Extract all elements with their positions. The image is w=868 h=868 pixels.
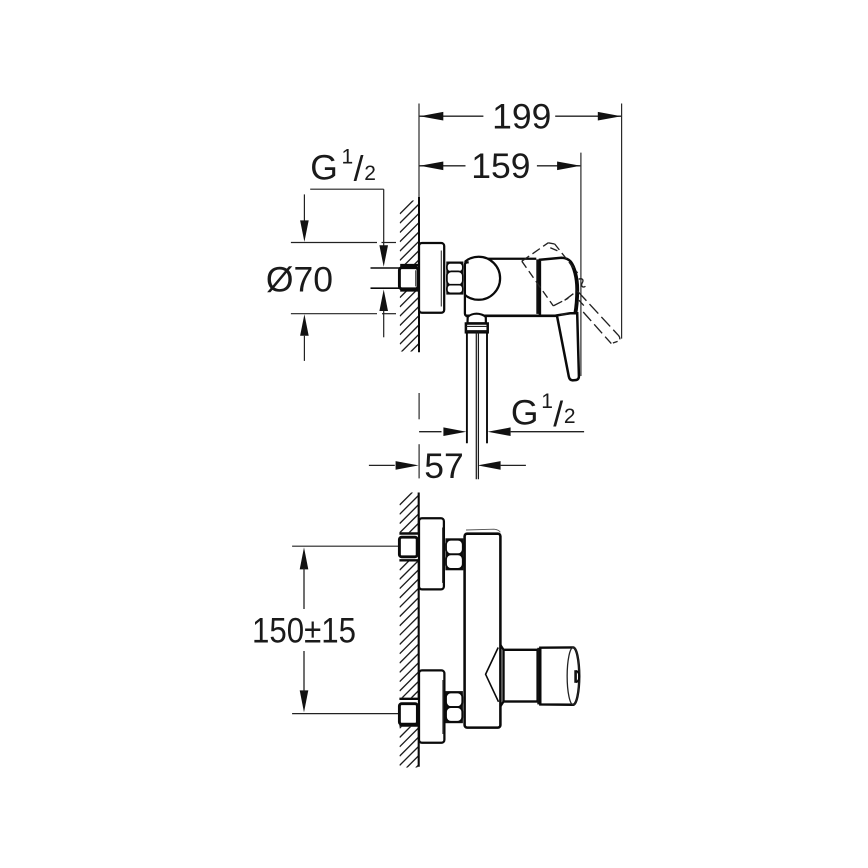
bottom union hex facet lower bbox=[446, 707, 462, 722]
arrowhead 57 left bbox=[396, 461, 419, 470]
knob cylinder with end face bbox=[540, 647, 579, 704]
svg-text:159: 159 bbox=[471, 146, 530, 186]
dim line 150 lower part bbox=[303, 651, 305, 692]
dim line 150 upper part bbox=[303, 568, 305, 609]
body bottom edge bbox=[466, 314, 558, 317]
top escutcheon chamfer line bbox=[442, 528, 444, 583]
label G 1/2 (outlet thread) bbox=[511, 390, 576, 434]
escutcheon flange (top view, Ø70) bbox=[419, 243, 444, 313]
wall hatching (top view) bbox=[400, 195, 419, 372]
arrowhead G1/2 down at inlet pipe top bbox=[379, 245, 388, 266]
knob center lug bbox=[574, 670, 577, 683]
svg-text:1: 1 bbox=[342, 146, 354, 169]
neck bottom chamfer bbox=[500, 702, 503, 707]
arrowhead Ø70 up at flange bottom bbox=[300, 314, 309, 336]
flange chamfer line bbox=[440, 251, 442, 307]
collar bottom emphasis bbox=[466, 330, 488, 332]
arrowhead 159 left bbox=[420, 162, 444, 171]
dim Ø70 lower leader line bbox=[303, 336, 305, 361]
dim 150±15 extension line top bbox=[292, 545, 399, 547]
bottom union escutcheon bbox=[419, 670, 444, 742]
ghost lever lower edge near pivot bbox=[579, 300, 584, 305]
ghost lever base edge 2 bbox=[565, 291, 578, 301]
knob lug bulge bbox=[576, 671, 579, 683]
hex nut facet bottom bbox=[447, 285, 463, 294]
arrowhead 150 down bbox=[300, 690, 309, 712]
arrowhead 57 right bbox=[478, 461, 501, 470]
hex nut facet middle bbox=[447, 271, 463, 285]
extension line: right of dim 199 bbox=[621, 104, 623, 339]
arrowhead 150 up bbox=[300, 547, 309, 569]
outlet pipe outer walls bbox=[466, 332, 468, 443]
inlet pipe in wall, thick lines bbox=[400, 264, 419, 267]
svg-text:G: G bbox=[511, 393, 539, 433]
dim 150±15 extension line bottom bbox=[292, 713, 399, 715]
white gaps for union pipes through wall bbox=[399, 532, 420, 561]
ghost lever upper edge bbox=[578, 291, 618, 335]
arrowhead outlet left bbox=[443, 427, 466, 436]
outlet collar ring bbox=[466, 324, 488, 333]
extension line: wall face / left of dim 199 bbox=[418, 104, 420, 199]
svg-text:199: 199 bbox=[492, 97, 551, 137]
extension line flange top (Ø70) bbox=[291, 242, 377, 244]
svg-text:/: / bbox=[553, 394, 563, 434]
hex nut at ball joint (black base) bbox=[446, 262, 463, 295]
top union hex facet upper bbox=[446, 540, 463, 555]
svg-text:/: / bbox=[354, 149, 364, 189]
svg-text:Ø70: Ø70 bbox=[266, 260, 333, 300]
ghost handle top edge (dashed, raised position) bbox=[522, 243, 548, 261]
mixer body block (top view) bbox=[472, 259, 536, 316]
leader drop line to inlet pipe bbox=[383, 189, 385, 248]
top union hex nut (black base) bbox=[445, 538, 463, 570]
dark seam ring between body and cartridge cap bbox=[536, 259, 540, 314]
extension line flange bottom (Ø70) bbox=[291, 313, 377, 315]
svg-text:2: 2 bbox=[364, 162, 376, 185]
dimension line outlet G1/2 bbox=[419, 431, 441, 433]
inlet pipe stub (G1/2) lines bbox=[371, 267, 400, 269]
leader underline of G 1/2 top label bbox=[310, 188, 384, 190]
mixer body (front) bbox=[465, 534, 501, 728]
svg-text:2: 2 bbox=[564, 405, 576, 428]
lever edge curve on cap bbox=[569, 262, 576, 314]
lever handle (rest position) bbox=[557, 313, 579, 380]
label G 1/2 (top left, inlet thread) bbox=[310, 146, 376, 189]
svg-text:1: 1 bbox=[541, 390, 553, 413]
top union square nut bbox=[399, 537, 417, 557]
bottom escutcheon chamfer line bbox=[442, 680, 444, 734]
inner edge of square nut bbox=[415, 270, 417, 286]
inlet union square nut bbox=[399, 268, 418, 289]
wall face line (top view) bbox=[418, 197, 420, 352]
svg-text:150±15: 150±15 bbox=[252, 611, 356, 651]
body chevron marking bbox=[486, 648, 499, 702]
dim Ø70 upper leader line bbox=[303, 194, 305, 221]
outlet thread stub (G1/2) inner lines bbox=[475, 332, 477, 479]
ghost lever tip bbox=[611, 335, 620, 344]
ghost lever base edge bbox=[553, 298, 568, 306]
arrowhead 199 left bbox=[420, 112, 444, 121]
white gap for inlet pipe through wall bbox=[399, 264, 419, 291]
wall face line (bottom view) bbox=[418, 493, 420, 767]
ghost handle corner bbox=[548, 243, 555, 244]
neck top chamfer bbox=[500, 645, 503, 650]
body column holding ball bbox=[465, 262, 489, 315]
ghost lever lower edge bbox=[583, 312, 611, 344]
ghost cap left edge bbox=[522, 261, 554, 306]
ghost dash at lever base bbox=[561, 313, 567, 316]
dimension line 57 bbox=[369, 464, 395, 466]
arrowhead G1/2 up at inlet pipe bottom bbox=[379, 290, 388, 312]
dimension line 199 bbox=[420, 115, 622, 117]
ghost cap chamfer bbox=[550, 248, 557, 251]
collar inner line bbox=[467, 325, 488, 327]
dark seam ring before knob bbox=[537, 648, 540, 705]
leader tail below inlet pipe bbox=[383, 311, 385, 337]
dimension line 159 bbox=[420, 165, 581, 167]
body top chamfer line bbox=[466, 529, 500, 532]
hex nut facet top bbox=[447, 263, 463, 272]
arrowhead 199 right bbox=[598, 112, 622, 121]
bottom union hex nut (black base) bbox=[445, 691, 463, 723]
wall hatching (bottom view) bbox=[400, 486, 419, 784]
bottom union pipe lines bbox=[399, 698, 419, 700]
bottom union hex facet upper bbox=[446, 693, 462, 708]
arrowhead outlet right bbox=[488, 427, 511, 436]
cartridge cap with curved face bbox=[540, 258, 578, 316]
extension line at wall for 57 bbox=[418, 393, 420, 419]
top union pipe lines bbox=[399, 532, 419, 534]
arrowhead 159 right bbox=[557, 162, 581, 171]
arrowhead Ø70 down at flange top bbox=[300, 220, 309, 242]
top union hex facet lower bbox=[446, 554, 463, 569]
knob end face ellipse bbox=[567, 647, 579, 704]
ghost button squiggle bbox=[579, 279, 586, 287]
ghost cap right edge bbox=[555, 244, 578, 273]
top union escutcheon bbox=[419, 518, 444, 589]
extension line: right of dim 159 bbox=[580, 153, 582, 376]
svg-text:57: 57 bbox=[424, 446, 464, 486]
bottom union square nut bbox=[399, 704, 417, 725]
outlet neck under body bbox=[468, 314, 486, 324]
cartridge neck bbox=[504, 650, 538, 702]
svg-text:G: G bbox=[310, 147, 338, 187]
